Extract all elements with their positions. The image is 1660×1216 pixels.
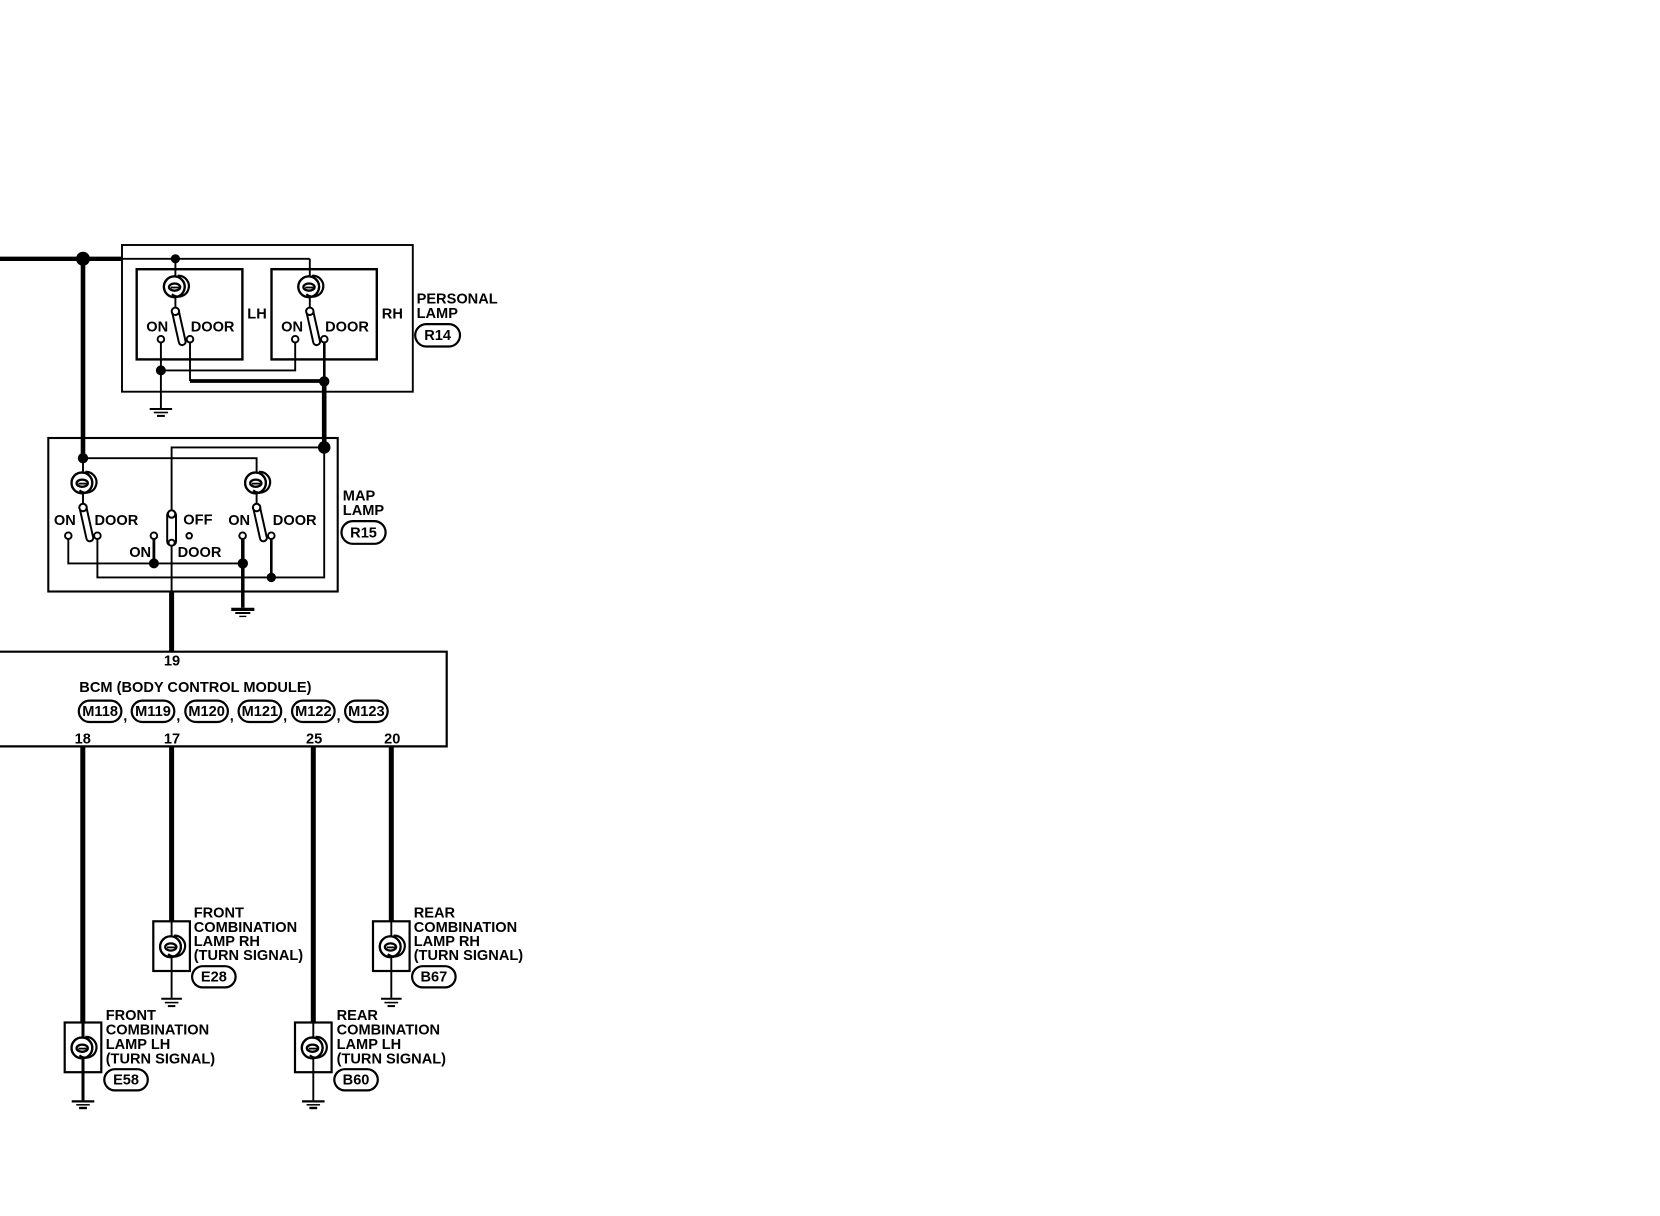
front combination lamp LH (turn signal) wire through: [82, 1023, 85, 1038]
svg-text:ON: ON: [146, 320, 168, 336]
ground rear combination lamp RH (turn signal): [381, 999, 402, 1006]
label PERSONAL LAMP: [417, 292, 498, 323]
wire personal ON terminals to ground: [161, 343, 295, 371]
svg-text:ON: ON: [281, 320, 303, 336]
svg-text:DOOR: DOOR: [273, 513, 317, 529]
terminal ON personal RH: [292, 336, 299, 343]
junction map ON RH: [238, 558, 248, 568]
switch lever map middle: [167, 510, 176, 545]
svg-text:19: 19: [164, 653, 180, 669]
bulb map lamp LH: [72, 472, 97, 493]
label MAP LAMP: [343, 488, 385, 519]
wire RH bulb to switch: [309, 298, 311, 312]
bulb rear combination lamp RH (turn signal): [380, 936, 405, 957]
ground rear combination lamp LH (turn signal): [302, 1101, 325, 1108]
wire personal ground drop: [160, 370, 162, 408]
connector B60: [334, 1069, 378, 1090]
connector M123: [345, 701, 388, 722]
svg-text:LH: LH: [247, 307, 266, 323]
rear combination lamp LH (turn signal) wire through: [312, 1023, 314, 1038]
svg-text:E28: E28: [201, 970, 227, 986]
junction personal LH branch: [171, 254, 180, 263]
wire personal LH DOOR drop: [189, 343, 191, 382]
svg-text:R14: R14: [424, 328, 452, 344]
svg-text:OFF: OFF: [183, 512, 212, 528]
svg-text:M121: M121: [242, 704, 279, 720]
junction map ON middle: [149, 558, 159, 568]
wire LH bulb to switch: [174, 298, 176, 312]
svg-text:M118: M118: [82, 704, 118, 720]
label front combination lamp LH (turn signal): [106, 1008, 216, 1068]
wire personal LH bulb feed: [174, 259, 176, 278]
wire map middle ON drop: [152, 539, 155, 563]
front combination lamp RH (turn signal) wire through: [171, 921, 173, 936]
svg-text:ON: ON: [129, 545, 151, 561]
svg-text:LAMP: LAMP: [343, 503, 385, 519]
svg-text:M120: M120: [188, 704, 225, 720]
connector M121: [239, 701, 282, 722]
terminal OFF map middle: [186, 533, 192, 539]
svg-text:(TURN SIGNAL): (TURN SIGNAL): [337, 1052, 447, 1068]
svg-text:ON: ON: [54, 513, 76, 529]
junction power feed: [76, 252, 90, 266]
svg-text:PERSONAL: PERSONAL: [417, 292, 498, 308]
svg-text:M122: M122: [295, 704, 332, 720]
wire door signal to map lamp: [322, 381, 327, 447]
bulb personal lamp LH: [164, 276, 189, 297]
junction personal DOOR net: [319, 376, 329, 386]
personal lamp RH switch box: [272, 269, 377, 359]
BCM box: [0, 652, 447, 747]
wire map RH bulb to switch: [256, 494, 258, 508]
wire map RH ON to ground: [241, 539, 245, 608]
bulb front combination lamp LH (turn signal): [72, 1037, 97, 1058]
wire map bulb feed bus: [83, 458, 257, 473]
connector E28: [192, 966, 236, 987]
terminal ON personal LH: [158, 336, 165, 343]
wire map LH bulb to switch: [82, 494, 84, 508]
svg-text:LAMP LH: LAMP LH: [106, 1037, 171, 1053]
label front combination lamp RH (turn signal): [194, 906, 304, 964]
svg-text:ON: ON: [228, 513, 250, 529]
svg-text:B67: B67: [420, 970, 447, 986]
ground front combination lamp RH (turn signal): [161, 999, 182, 1006]
terminal DOOR map RH: [268, 532, 275, 539]
svg-text:,: ,: [230, 709, 234, 725]
ground personal lamp: [150, 409, 172, 416]
svg-text:(TURN SIGNAL): (TURN SIGNAL): [194, 948, 304, 964]
svg-text:BCM (BODY CONTROL MODULE): BCM (BODY CONTROL MODULE): [79, 680, 311, 696]
connector E58: [104, 1069, 148, 1090]
connector R14: [415, 324, 460, 346]
svg-text:DOOR: DOOR: [325, 320, 369, 336]
svg-text:,: ,: [283, 709, 287, 725]
terminal DOOR personal LH: [187, 336, 194, 343]
svg-text:REAR: REAR: [337, 1008, 379, 1024]
label rear combination lamp LH (turn signal): [337, 1008, 447, 1068]
personal lamp LH switch box: [137, 269, 243, 359]
svg-text:FRONT: FRONT: [106, 1008, 156, 1024]
connector B67: [412, 966, 456, 987]
wire map ON bus: [68, 539, 243, 563]
terminal DOOR map LH: [94, 532, 101, 539]
svg-text:COMBINATION: COMBINATION: [106, 1022, 210, 1038]
svg-text:18: 18: [75, 731, 91, 747]
switch lever map RH: [252, 503, 268, 542]
terminal ON map RH: [239, 532, 246, 539]
wire personal DOOR bus: [190, 379, 324, 383]
svg-text:LAMP: LAMP: [417, 306, 459, 322]
wire pin 18 to front combination lamp LH: [80, 746, 85, 1022]
svg-text:25: 25: [306, 731, 322, 747]
switch lever personal LH: [171, 307, 187, 346]
wire middle switch to box edge: [171, 546, 173, 592]
svg-text:20: 20: [384, 731, 400, 747]
junction door signal in map lamp: [318, 441, 331, 454]
wire map RH DOOR drop: [270, 539, 273, 577]
junction personal ON net: [156, 365, 166, 375]
bulb front combination lamp RH (turn signal): [160, 936, 185, 957]
wire to BCM pin 19: [169, 592, 174, 652]
wire map DOOR bus: [97, 447, 324, 577]
svg-text:DOOR: DOOR: [191, 320, 235, 336]
svg-text:LAMP LH: LAMP LH: [337, 1037, 402, 1053]
svg-text:,: ,: [176, 709, 180, 725]
label rear combination lamp RH (turn signal): [414, 906, 524, 964]
wire pin 25 to rear combination lamp LH: [311, 746, 316, 1022]
wire pin 20 to rear combination lamp RH: [389, 746, 394, 921]
svg-text:RH: RH: [382, 307, 403, 323]
ground front combination lamp LH (turn signal): [72, 1101, 95, 1108]
junction map power: [78, 453, 88, 463]
junction map DOOR RH: [267, 573, 276, 582]
wire power feed branch down to map lamp: [81, 259, 86, 458]
connector M122: [292, 701, 335, 722]
personal lamp R14 outer box: [122, 245, 413, 392]
svg-text:,: ,: [337, 709, 341, 725]
svg-text:(TURN SIGNAL): (TURN SIGNAL): [414, 948, 524, 964]
connector M120: [185, 701, 228, 722]
terminal ON map middle: [151, 532, 158, 539]
map lamp R15 box: [48, 438, 337, 592]
wire pin 17 to front combination lamp RH: [169, 746, 174, 921]
switch lever personal RH: [305, 307, 321, 346]
connector R15: [342, 521, 386, 544]
svg-text:,: ,: [123, 709, 127, 725]
wire map LH bulb stub: [82, 458, 84, 473]
connector M118: [79, 701, 122, 722]
bulb map lamp RH: [245, 472, 270, 493]
rear combination lamp RH (turn signal) box: [373, 921, 410, 971]
svg-text:R15: R15: [350, 525, 377, 541]
ground map lamp: [231, 609, 254, 616]
svg-text:B60: B60: [343, 1073, 370, 1089]
wire door signal to middle switch: [172, 447, 325, 511]
svg-text:17: 17: [164, 731, 180, 747]
svg-text:E58: E58: [113, 1073, 139, 1089]
switch lever map LH: [79, 503, 95, 542]
front combination lamp LH (turn signal) box: [65, 1023, 102, 1073]
wire power feed horizontal: [0, 257, 122, 261]
wire personal RH DOOR drop: [323, 343, 326, 382]
svg-text:(TURN SIGNAL): (TURN SIGNAL): [106, 1052, 216, 1068]
svg-text:M119: M119: [135, 704, 171, 720]
rear combination lamp RH (turn signal) wire through: [390, 921, 392, 936]
bulb personal lamp RH: [298, 276, 323, 297]
wire power feed inside personal lamp: [122, 258, 310, 260]
front combination lamp RH (turn signal) box: [153, 921, 190, 971]
rear combination lamp LH (turn signal) box: [295, 1023, 332, 1073]
terminal DOOR personal RH: [321, 336, 328, 343]
wire personal RH bulb feed: [309, 259, 311, 278]
bulb rear combination lamp LH (turn signal): [302, 1037, 327, 1058]
svg-text:DOOR: DOOR: [95, 513, 139, 529]
terminal ON map LH: [65, 532, 72, 539]
svg-text:COMBINATION: COMBINATION: [337, 1022, 441, 1038]
svg-text:DOOR: DOOR: [178, 545, 222, 561]
connector M119: [132, 701, 175, 722]
svg-text:M123: M123: [348, 704, 385, 720]
